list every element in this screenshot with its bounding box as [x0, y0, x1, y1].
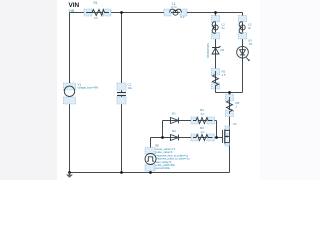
inductor L3 [239, 16, 252, 40]
svg-text:0.2: 0.2 [181, 15, 185, 19]
svg-text:10u: 10u [128, 86, 133, 90]
resistor R1 [84, 1, 111, 20]
diode D1 [171, 112, 179, 124]
wire gate lead [217, 137, 223, 139]
background canvas [0, 0, 320, 180]
svg-text:VIN: VIN [69, 9, 75, 13]
svg-text:1m: 1m [201, 130, 206, 134]
svg-text:1.5: 1.5 [222, 73, 226, 77]
wire lamp branch [242, 13, 244, 93]
diode D2 [171, 129, 179, 141]
svg-text:3u: 3u [222, 26, 226, 30]
wire mid connector [216, 92, 243, 94]
inductor L1 [164, 2, 187, 19]
resistor R2 [212, 69, 226, 90]
svg-text:3u: 3u [248, 26, 252, 30]
wire bottom diode branch [151, 137, 217, 139]
svg-text:voltage_func=VIN: voltage_func=VIN [78, 86, 99, 90]
mosfet U1 [223, 122, 238, 146]
resistor R3 [191, 126, 215, 141]
svg-text:V2: V2 [155, 144, 159, 148]
wire bottom rail [70, 172, 230, 174]
wire left diode vertical [162, 121, 164, 138]
svg-text:1m: 1m [94, 16, 99, 20]
capacitor C1 [117, 83, 133, 105]
wire zener branch [215, 13, 217, 93]
resistor R5 [226, 95, 240, 117]
wire C1 branch [121, 13, 123, 93]
wire top rail [70, 12, 243, 14]
lamp U3 [237, 39, 253, 62]
svg-text:D1: D1 [172, 112, 176, 116]
right pale area [260, 0, 320, 180]
svg-text:D2: D2 [172, 129, 176, 133]
svg-text:D3: D3 [221, 48, 225, 52]
wire V2 stem [150, 138, 152, 154]
svg-text:PL: PL [249, 42, 253, 46]
pulse source V2 [145, 144, 190, 172]
svg-text:period=100u: period=100u [156, 166, 171, 170]
svg-text:BZX84C5V6L: BZX84C5V6L [207, 42, 210, 58]
svg-text:U1: U1 [233, 122, 237, 126]
wire R5 to drain [229, 93, 231, 131]
left gray margin [0, 0, 57, 180]
wire left rail [69, 13, 71, 87]
inductor L2 [212, 16, 226, 40]
resistor R4 [191, 108, 215, 124]
svg-text:4.7u: 4.7u [171, 5, 177, 9]
ground [66, 173, 73, 178]
wire gate connector vertical [216, 121, 218, 138]
svg-text:1m: 1m [201, 112, 206, 116]
node junction dots [68, 11, 231, 174]
wire source to rail [229, 143, 231, 173]
wire top diode branch [163, 120, 217, 122]
svg-text:R1: R1 [94, 1, 98, 5]
zener diode D3 [207, 42, 225, 58]
voltage source V1 [64, 83, 99, 105]
